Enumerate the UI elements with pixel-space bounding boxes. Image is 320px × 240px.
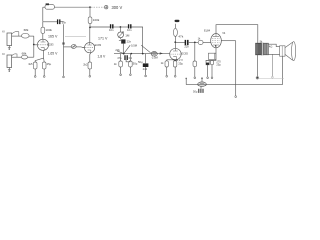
svg-text:47n: 47n (117, 57, 122, 60)
capacitor C2 (111, 24, 113, 28)
transformer T1 primary (256, 43, 261, 55)
svg-text:1M: 1M (125, 34, 130, 38)
svg-text:V4: V4 (222, 31, 226, 35)
speaker LS (280, 46, 285, 56)
node C (131, 53, 133, 55)
transformer core (262, 43, 263, 56)
wire secondary bottom to ground (271, 54, 273, 76)
wire node A to pot (119, 27, 121, 32)
grounds V3 (167, 67, 176, 75)
lamp / hum pot (198, 82, 207, 86)
node grid V1 (33, 44, 35, 46)
svg-text:2k2: 2k2 (83, 62, 88, 66)
svg-text:1,65 V: 1,65 V (48, 52, 59, 56)
svg-text:1k5: 1k5 (28, 62, 33, 66)
wire C2 to node A (114, 26, 129, 28)
wire screen to NFB column (221, 40, 235, 42)
wire pot to grid V2 (76, 46, 81, 48)
jack input 1 (7, 33, 12, 46)
wire node to grid (34, 44, 38, 46)
grounds cathode V4 (208, 65, 212, 77)
wire heater stub (185, 79, 187, 85)
ground Ck1 (43, 69, 45, 76)
wiper arrow P3 (141, 45, 150, 53)
wire decoupling column (63, 24, 65, 76)
wire plate V4 to transformer (216, 25, 258, 44)
blob node (62, 42, 64, 44)
pot P2 volume (118, 32, 124, 38)
node A (120, 26, 122, 28)
capacitor C5 (125, 55, 127, 60)
ground jack 2 (8, 68, 10, 70)
wire plate to C2 (90, 26, 110, 28)
triode V2 (85, 43, 95, 53)
svg-text:25µ: 25µ (216, 63, 221, 67)
svg-text:10n: 10n (127, 28, 132, 32)
resistor R11 grid leak (194, 42, 196, 61)
wire to power tube (203, 41, 211, 43)
svg-text:22n: 22n (184, 45, 189, 49)
wire speaker return (186, 56, 282, 84)
svg-text:25µ: 25µ (178, 62, 183, 66)
capacitor C3 (129, 24, 131, 28)
cathode V3 resistors (167, 60, 177, 61)
node plate V2 (89, 27, 91, 29)
arrow to grid V3 (160, 52, 163, 54)
svg-text:1,2 V: 1,2 V (177, 58, 183, 62)
svg-text:25µ: 25µ (47, 62, 52, 66)
triode V1 (37, 39, 48, 50)
wire cathode V1 (35, 50, 44, 62)
resistor Rk1 (33, 62, 37, 69)
svg-text:100k: 100k (45, 28, 52, 32)
svg-text:50n: 50n (62, 21, 67, 25)
svg-text:47k: 47k (178, 35, 183, 39)
svg-text:2n2: 2n2 (143, 67, 148, 71)
capacitor C9 (200, 86, 202, 88)
ground NFB (235, 96, 237, 98)
svg-text:Kl: Kl (2, 29, 5, 33)
wire B+ top rail (43, 6, 45, 8)
capacitor Ck1 (42, 62, 46, 69)
svg-text:EL84: EL84 (204, 29, 211, 33)
svg-text:EC83: EC83 (95, 43, 102, 47)
wire plate V1 riser (42, 7, 44, 21)
faint wire bottom right (259, 78, 284, 80)
svg-text:1k: 1k (161, 61, 164, 65)
svg-text:EC83: EC83 (47, 43, 54, 47)
capacitor C4 (120, 38, 122, 40)
svg-text:1,8 V: 1,8 V (97, 54, 106, 58)
wiper arrow P2 (117, 45, 130, 53)
svg-text:165 V: 165 V (48, 35, 58, 39)
resistor R6 100k (88, 17, 92, 24)
B+ tap blob (175, 20, 180, 22)
fuse/resistor in rail (45, 5, 54, 10)
wire C3 right then down (132, 27, 143, 54)
transformer T1 secondary (264, 43, 269, 55)
svg-text:10n: 10n (109, 28, 114, 32)
cathode V4 (215, 48, 217, 61)
svg-text:50µ: 50µ (138, 60, 143, 64)
svg-text:Kl: Kl (2, 52, 5, 56)
jack input 2 (7, 55, 12, 68)
wire NFB column (235, 41, 237, 96)
wire cathode V2 (90, 53, 91, 62)
ground Rk1 (34, 69, 36, 76)
node E (194, 42, 196, 44)
B+ terminal (105, 6, 108, 9)
svg-text:22k: 22k (115, 48, 120, 52)
svg-text:100k: 100k (93, 18, 100, 22)
wire R2 to node (28, 56, 34, 58)
resistor Rk4 (210, 60, 213, 64)
ground column (63, 76, 65, 78)
resistor R10 grid stopper (198, 40, 203, 44)
ground Rk2 (89, 69, 91, 75)
pentode V4 (211, 34, 222, 48)
resistor R7 (119, 61, 123, 67)
wire jack1 to R1 (12, 35, 22, 37)
svg-text:1k: 1k (114, 62, 117, 66)
capacitor C1 (58, 19, 60, 24)
wire C8 to grid node (189, 41, 198, 43)
svg-text:22n: 22n (127, 39, 132, 43)
triode V3 (170, 48, 181, 59)
wire R1 to node (29, 35, 34, 37)
resistor R3 100k plate V1 (42, 22, 44, 27)
svg-text:0,5M: 0,5M (131, 43, 138, 47)
svg-text:EC83: EC83 (181, 51, 188, 55)
svg-text:5k: 5k (260, 39, 263, 43)
pot P1 (71, 45, 76, 49)
svg-text:50µ: 50µ (193, 89, 198, 93)
wire to volume pot (64, 46, 72, 48)
resistor R9 plate V3 (174, 42, 176, 48)
faint wire (65, 36, 86, 38)
wire C4 down (122, 44, 124, 54)
capacitor Ck4 (206, 59, 216, 61)
wire plate V3 to C8 (175, 41, 185, 43)
wire jack2 to R2 (12, 56, 22, 58)
wire tone bus (114, 53, 170, 55)
svg-text:4Ω: 4Ω (269, 45, 272, 49)
svg-text:1k: 1k (198, 36, 201, 40)
ground jack 1 (8, 46, 10, 48)
resistor R2 68k (21, 55, 27, 59)
svg-text:171 V: 171 V (98, 36, 108, 40)
node D (142, 53, 144, 55)
resistor Rk2 (88, 62, 92, 69)
capacitor C6 (129, 61, 133, 67)
wire primary bottom to ground (256, 55, 258, 77)
wire secondary to speaker (268, 44, 279, 46)
resistor R1 68k (22, 33, 30, 38)
svg-text:300 V: 300 V (112, 5, 123, 10)
wire input node column (33, 36, 35, 57)
wire plate V2 riser (89, 7, 91, 43)
pot P3 tone (151, 52, 157, 56)
node B (123, 53, 125, 55)
junction dot rail (89, 6, 91, 8)
capacitor C7 (145, 54, 147, 64)
svg-text:0,5M: 0,5M (152, 55, 159, 59)
wire to coupling cap C1 (43, 21, 57, 23)
svg-text:68k: 68k (24, 28, 29, 32)
svg-text:68k: 68k (22, 52, 27, 56)
capacitor C8 (185, 40, 187, 45)
